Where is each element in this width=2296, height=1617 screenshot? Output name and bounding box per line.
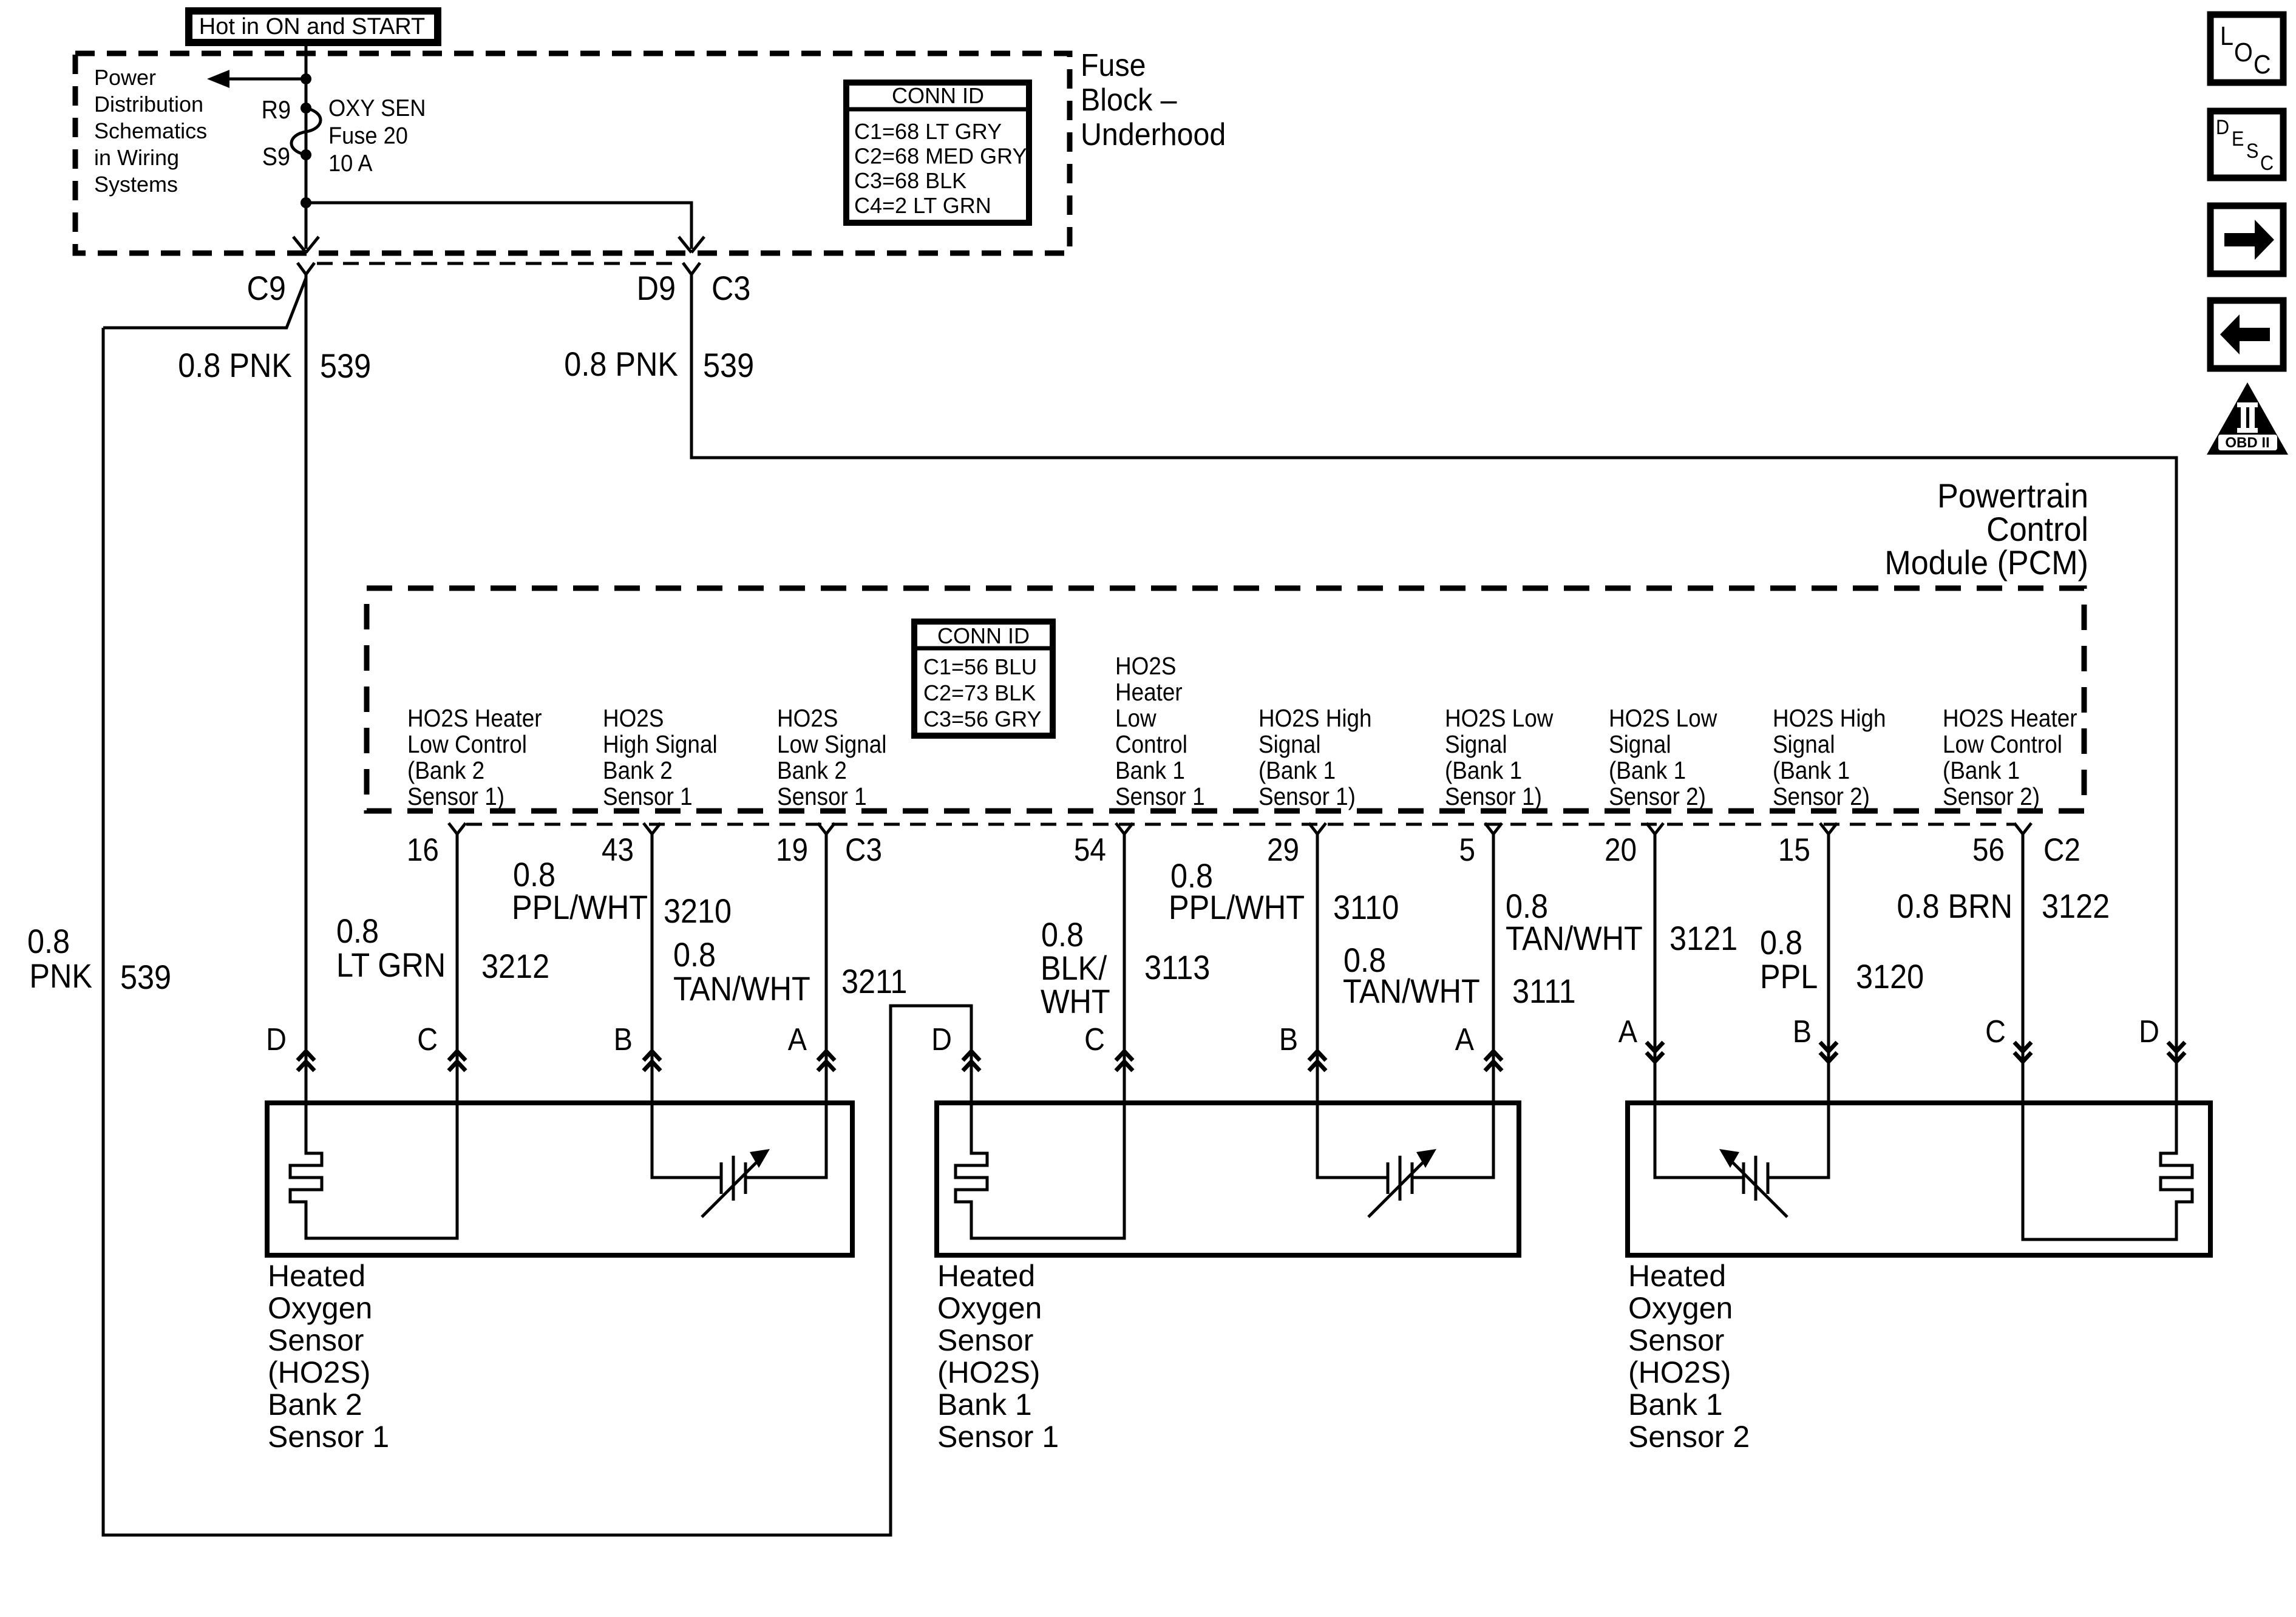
connector fork D9 bbox=[683, 263, 691, 274]
svg-text:Distribution: Distribution bbox=[94, 92, 203, 117]
svg-text:PPL/WHT: PPL/WHT bbox=[512, 889, 648, 927]
svg-text:TAN/WHT: TAN/WHT bbox=[673, 971, 810, 1008]
svg-text:Signal: Signal bbox=[1609, 731, 1671, 758]
wire with arrow to power distribution schematics bbox=[227, 78, 306, 81]
svg-text:Bank 2: Bank 2 bbox=[603, 757, 673, 784]
wire: PNK 539 from D9 down, across page, down right margin to HO2S B1S2 pin D bbox=[691, 274, 2176, 1105]
svg-text:3122: 3122 bbox=[2042, 888, 2110, 926]
svg-text:(Bank 1: (Bank 1 bbox=[1943, 757, 2020, 784]
PCM connector fork pin 5 bbox=[1485, 823, 1493, 834]
PCM connector fork pin 54 bbox=[1116, 823, 1124, 834]
svg-text:20: 20 bbox=[1605, 832, 1637, 868]
svg-text:0.8 BRN: 0.8 BRN bbox=[1897, 888, 2012, 926]
arrow into connector at C9 bbox=[293, 237, 306, 253]
svg-text:(Bank 1: (Bank 1 bbox=[1258, 757, 1336, 784]
svg-text:D9: D9 bbox=[637, 270, 676, 308]
wire: pin 19 TAN/WHT 3210 to B2S1 pin A bbox=[825, 834, 828, 1105]
svg-text:A: A bbox=[788, 1022, 807, 1057]
svg-text:C: C bbox=[2260, 152, 2274, 175]
wire: PNK 539 branch from C9 to left margin bbox=[103, 278, 306, 328]
svg-text:29: 29 bbox=[1267, 832, 1299, 868]
svg-text:S9: S9 bbox=[262, 143, 290, 171]
svg-text:0.8: 0.8 bbox=[336, 913, 379, 951]
sensing element, HO2S Bank 2 Sensor 1 bbox=[652, 1105, 721, 1178]
fuse block dashed box (Fuse Block - Underhood) bbox=[75, 53, 1070, 253]
svg-text:C1=68 LT GRY: C1=68 LT GRY bbox=[854, 119, 1002, 144]
svg-text:0.8: 0.8 bbox=[673, 937, 716, 974]
svg-text:LT GRN: LT GRN bbox=[336, 947, 446, 985]
svg-text:(Bank 1: (Bank 1 bbox=[1445, 757, 1522, 784]
junction node power distribution tap bbox=[301, 73, 311, 84]
heater element, HO2S Bank 1 Sensor 1 bbox=[956, 1105, 1124, 1238]
svg-text:Underhood: Underhood bbox=[1081, 117, 1226, 152]
svg-text:D: D bbox=[2216, 116, 2229, 139]
svg-text:D: D bbox=[931, 1022, 952, 1057]
wire: pin 56 BRN 3122 to B1S2 pin C bbox=[2022, 834, 2025, 1105]
svg-text:Module (PCM): Module (PCM) bbox=[1884, 544, 2088, 581]
svg-text:3210: 3210 bbox=[664, 893, 732, 931]
svg-text:HO2S High: HO2S High bbox=[1773, 705, 1886, 732]
HO2S Bank 1 Sensor 1 box bbox=[937, 1103, 1519, 1255]
svg-text:16: 16 bbox=[407, 832, 439, 868]
svg-text:Signal: Signal bbox=[1445, 731, 1507, 758]
wire: PNK 539 from C9 straight down to HO2S B2S1 pin D bbox=[305, 274, 308, 1105]
svg-text:Control: Control bbox=[1986, 510, 2088, 548]
fuse F20 terminal R9 bbox=[301, 103, 311, 114]
svg-text:Sensor 1: Sensor 1 bbox=[937, 1420, 1059, 1454]
sensing element, HO2S Bank 1 Sensor 2 bbox=[1655, 1105, 1744, 1178]
svg-text:Sensor 1): Sensor 1) bbox=[1258, 783, 1356, 810]
svg-text:Sensor 1: Sensor 1 bbox=[603, 783, 693, 810]
svg-text:5: 5 bbox=[1459, 832, 1475, 868]
svg-text:3111: 3111 bbox=[1512, 973, 1576, 1011]
svg-text:HO2S Heater: HO2S Heater bbox=[407, 705, 542, 732]
svg-text:R9: R9 bbox=[262, 96, 291, 124]
svg-text:Low Control: Low Control bbox=[407, 731, 527, 758]
heater element, HO2S Bank 1 Sensor 2 bbox=[2023, 1105, 2192, 1239]
CONN ID table (fuse block) bbox=[846, 83, 1029, 223]
svg-text:Sensor 2: Sensor 2 bbox=[1628, 1420, 1750, 1454]
svg-text:A: A bbox=[1455, 1022, 1474, 1057]
svg-text:539: 539 bbox=[703, 347, 754, 385]
svg-text:0.8: 0.8 bbox=[1760, 924, 1802, 962]
svg-text:HO2S: HO2S bbox=[603, 705, 664, 732]
svg-text:(Bank 1: (Bank 1 bbox=[1773, 757, 1850, 784]
svg-text:Sensor: Sensor bbox=[1628, 1323, 1724, 1357]
sensing element, HO2S Bank 1 Sensor 1 bbox=[1317, 1105, 1388, 1178]
svg-text:Schematics: Schematics bbox=[94, 118, 207, 143]
PCM connector fork pin 19 bbox=[818, 823, 826, 834]
svg-text:15: 15 bbox=[1778, 832, 1810, 868]
svg-text:O: O bbox=[2234, 37, 2253, 67]
svg-text:Sensor 2): Sensor 2) bbox=[1773, 783, 1870, 810]
svg-text:C3: C3 bbox=[845, 832, 882, 868]
svg-text:56: 56 bbox=[1972, 832, 2005, 868]
svg-text:TAN/WHT: TAN/WHT bbox=[1506, 920, 1643, 958]
svg-text:C: C bbox=[2254, 49, 2271, 79]
svg-text:Hot in ON and START: Hot in ON and START bbox=[199, 14, 425, 39]
wire: branch to fuse block terminal D9 bbox=[306, 203, 691, 249]
svg-text:HO2S: HO2S bbox=[777, 705, 838, 732]
svg-text:Sensor 1: Sensor 1 bbox=[268, 1420, 389, 1454]
svg-text:C3=56 GRY: C3=56 GRY bbox=[923, 707, 1041, 731]
wire: left margin feed down, along bottom, up to HO2S B1S1 pin D bbox=[103, 328, 971, 1535]
svg-text:C: C bbox=[1084, 1022, 1105, 1057]
svg-text:Powertrain: Powertrain bbox=[1937, 477, 2088, 515]
svg-text:0.8: 0.8 bbox=[513, 856, 555, 894]
heater element, HO2S Bank 2 Sensor 1 bbox=[290, 1105, 457, 1238]
svg-text:HO2S Low: HO2S Low bbox=[1609, 705, 1717, 732]
svg-text:C1=56 BLU: C1=56 BLU bbox=[923, 654, 1037, 679]
svg-text:(HO2S): (HO2S) bbox=[1628, 1355, 1731, 1389]
icon: DESC box bbox=[2210, 111, 2283, 178]
svg-text:HO2S High: HO2S High bbox=[1258, 705, 1372, 732]
svg-text:in Wiring: in Wiring bbox=[94, 145, 179, 170]
svg-text:E: E bbox=[2232, 127, 2244, 151]
wire: pin 20 TAN/WHT 3121 to B1S2 pin A bbox=[1654, 834, 1657, 1105]
svg-text:BLK/: BLK/ bbox=[1041, 950, 1107, 988]
svg-text:Sensor 1: Sensor 1 bbox=[1115, 783, 1205, 810]
svg-text:Oxygen: Oxygen bbox=[937, 1291, 1042, 1325]
arrow into connector at D9 bbox=[679, 237, 691, 253]
svg-text:0.8: 0.8 bbox=[1041, 917, 1084, 954]
svg-text:Bank 1: Bank 1 bbox=[937, 1388, 1032, 1422]
svg-text:Sensor 1): Sensor 1) bbox=[1445, 783, 1542, 810]
icon: OBD II triangle bbox=[2207, 382, 2288, 455]
svg-text:3212: 3212 bbox=[481, 948, 549, 986]
svg-text:Oxygen: Oxygen bbox=[268, 1291, 372, 1325]
fuse terminal S9 bbox=[301, 149, 311, 160]
wire: pin 54 BLK/WHT 3113 to B1S1 pin C bbox=[1123, 834, 1126, 1105]
svg-text:Oxygen: Oxygen bbox=[1628, 1291, 1733, 1325]
svg-text:(HO2S): (HO2S) bbox=[268, 1355, 370, 1389]
svg-text:3113: 3113 bbox=[1144, 949, 1210, 987]
in-line connector C9/D9 thin dashed line bbox=[317, 262, 681, 265]
svg-text:Bank 1: Bank 1 bbox=[1115, 757, 1185, 784]
svg-text:C2=73 BLK: C2=73 BLK bbox=[923, 680, 1036, 705]
svg-text:D: D bbox=[266, 1022, 287, 1057]
svg-text:C3: C3 bbox=[712, 270, 750, 308]
svg-text:Sensor 1): Sensor 1) bbox=[407, 783, 504, 810]
svg-text:(HO2S): (HO2S) bbox=[937, 1355, 1040, 1389]
svg-text:Sensor 2): Sensor 2) bbox=[1943, 783, 2040, 810]
svg-text:Signal: Signal bbox=[1773, 731, 1835, 758]
svg-text:0.8 PNK: 0.8 PNK bbox=[178, 347, 292, 385]
wire: pin 5 TAN/WHT 3111 to B1S1 pin A bbox=[1492, 834, 1495, 1105]
svg-text:Power: Power bbox=[94, 65, 156, 90]
svg-text:Sensor 1: Sensor 1 bbox=[777, 783, 867, 810]
PCM connector fork pin 56 bbox=[2014, 823, 2023, 834]
svg-text:Low Control: Low Control bbox=[1943, 731, 2062, 758]
svg-text:Bank 1: Bank 1 bbox=[1628, 1388, 1723, 1422]
svg-text:B: B bbox=[1793, 1014, 1812, 1049]
svg-text:HO2S: HO2S bbox=[1115, 653, 1176, 680]
connector fork C9 bbox=[297, 263, 306, 274]
wire: pin 43 PPL/WHT 3212 to B2S1 pin B bbox=[651, 834, 654, 1105]
wire: down to fuse block terminal C9 bbox=[305, 203, 308, 249]
CONN ID table (PCM) bbox=[914, 622, 1053, 736]
svg-text:WHT: WHT bbox=[1041, 983, 1110, 1021]
svg-text:Bank 2: Bank 2 bbox=[777, 757, 847, 784]
svg-text:HO2S Heater: HO2S Heater bbox=[1943, 705, 2077, 732]
junction node to D9 branch bbox=[301, 197, 311, 208]
icon: back arrow box bbox=[2210, 300, 2283, 368]
svg-text:539: 539 bbox=[120, 959, 171, 997]
svg-text:CONN ID: CONN ID bbox=[937, 623, 1030, 648]
svg-text:C: C bbox=[417, 1022, 438, 1057]
svg-text:C2: C2 bbox=[2043, 832, 2080, 868]
wire: battery feed from Hot box down bbox=[305, 45, 308, 203]
wire: pin 16 LT GRN 3212 to B2S1 pin C bbox=[456, 834, 459, 1105]
PCM connector fork pin 29 bbox=[1309, 823, 1317, 834]
PCM connector thin dashed line bbox=[466, 823, 2014, 826]
svg-text:Systems: Systems bbox=[94, 172, 178, 197]
PCM connector fork pin 16 bbox=[449, 823, 457, 834]
svg-text:OXY SEN: OXY SEN bbox=[328, 95, 426, 121]
svg-text:Heated: Heated bbox=[268, 1259, 365, 1293]
icon: LOC box bbox=[2210, 15, 2283, 83]
svg-text:Bank 2: Bank 2 bbox=[268, 1388, 362, 1422]
svg-text:3110: 3110 bbox=[1333, 889, 1399, 927]
HO2S Bank 2 Sensor 1 box bbox=[267, 1103, 852, 1255]
svg-text:Fuse 20: Fuse 20 bbox=[328, 122, 408, 148]
PCM connector fork pin 43 bbox=[644, 823, 652, 834]
svg-text:S: S bbox=[2246, 140, 2258, 163]
svg-text:CONN ID: CONN ID bbox=[892, 83, 984, 108]
svg-text:Signal: Signal bbox=[1258, 731, 1321, 758]
svg-text:C4=2 LT GRN: C4=2 LT GRN bbox=[854, 193, 991, 218]
svg-text:3120: 3120 bbox=[1856, 958, 1924, 996]
svg-text:539: 539 bbox=[320, 348, 371, 385]
svg-text:Low Signal: Low Signal bbox=[777, 731, 887, 758]
svg-text:(Bank 1: (Bank 1 bbox=[1609, 757, 1686, 784]
fuse OXY SEN Fuse 20 10 A element bbox=[291, 108, 321, 155]
svg-text:Low: Low bbox=[1115, 705, 1156, 732]
svg-text:PPL/WHT: PPL/WHT bbox=[1169, 889, 1305, 927]
hot feed label box "Hot in ON and START" bbox=[189, 11, 438, 42]
svg-text:54: 54 bbox=[1074, 832, 1106, 868]
svg-text:Fuse: Fuse bbox=[1081, 47, 1146, 83]
svg-text:B: B bbox=[614, 1022, 633, 1057]
svg-text:0.8: 0.8 bbox=[27, 923, 70, 961]
svg-text:3211: 3211 bbox=[841, 963, 907, 1001]
svg-text:PNK: PNK bbox=[29, 958, 92, 995]
svg-text:3121: 3121 bbox=[1669, 920, 1737, 958]
svg-text:L: L bbox=[2220, 21, 2233, 50]
svg-text:TAN/WHT: TAN/WHT bbox=[1343, 973, 1480, 1011]
PCM connector fork pin 20 bbox=[1646, 823, 1655, 834]
svg-text:Sensor: Sensor bbox=[937, 1323, 1033, 1357]
PCM connector fork pin 15 bbox=[1820, 823, 1829, 834]
icon: forward arrow box bbox=[2210, 206, 2283, 274]
wire: pin 15 PPL 3120 to B1S2 pin B bbox=[1827, 834, 1830, 1105]
svg-text:C3=68 BLK: C3=68 BLK bbox=[854, 168, 966, 193]
svg-text:OBD II: OBD II bbox=[2225, 435, 2269, 451]
svg-text:Control: Control bbox=[1115, 731, 1187, 758]
svg-text:Block –: Block – bbox=[1081, 82, 1177, 117]
wire: pin 29 PPL/WHT 3110 to B1S1 pin B bbox=[1316, 834, 1319, 1105]
svg-text:PPL: PPL bbox=[1760, 958, 1818, 996]
PCM dashed box (Powertrain Control Module) bbox=[367, 588, 2084, 811]
svg-text:C2=68 MED GRY: C2=68 MED GRY bbox=[854, 144, 1027, 169]
svg-text:B: B bbox=[1279, 1022, 1298, 1057]
svg-text:D: D bbox=[2139, 1014, 2159, 1049]
svg-text:43: 43 bbox=[602, 832, 634, 868]
svg-text:Heated: Heated bbox=[937, 1259, 1035, 1293]
svg-text:High Signal: High Signal bbox=[603, 731, 718, 758]
svg-text:0.8 PNK: 0.8 PNK bbox=[564, 346, 678, 384]
svg-text:C9: C9 bbox=[247, 270, 286, 308]
svg-text:C: C bbox=[1985, 1014, 2006, 1049]
svg-text:Heater: Heater bbox=[1115, 679, 1183, 706]
svg-text:HO2S Low: HO2S Low bbox=[1445, 705, 1554, 732]
svg-text:Sensor: Sensor bbox=[268, 1323, 364, 1357]
svg-text:(Bank 2: (Bank 2 bbox=[407, 757, 484, 784]
svg-text:A: A bbox=[1618, 1014, 1637, 1049]
svg-text:Heated: Heated bbox=[1628, 1259, 1726, 1293]
svg-text:19: 19 bbox=[776, 832, 808, 868]
svg-text:10 A: 10 A bbox=[328, 150, 373, 176]
HO2S Bank 1 Sensor 2 box bbox=[1628, 1103, 2210, 1255]
svg-text:Sensor 2): Sensor 2) bbox=[1609, 783, 1706, 810]
connector chevrons at sensor pins bbox=[297, 1051, 314, 1060]
